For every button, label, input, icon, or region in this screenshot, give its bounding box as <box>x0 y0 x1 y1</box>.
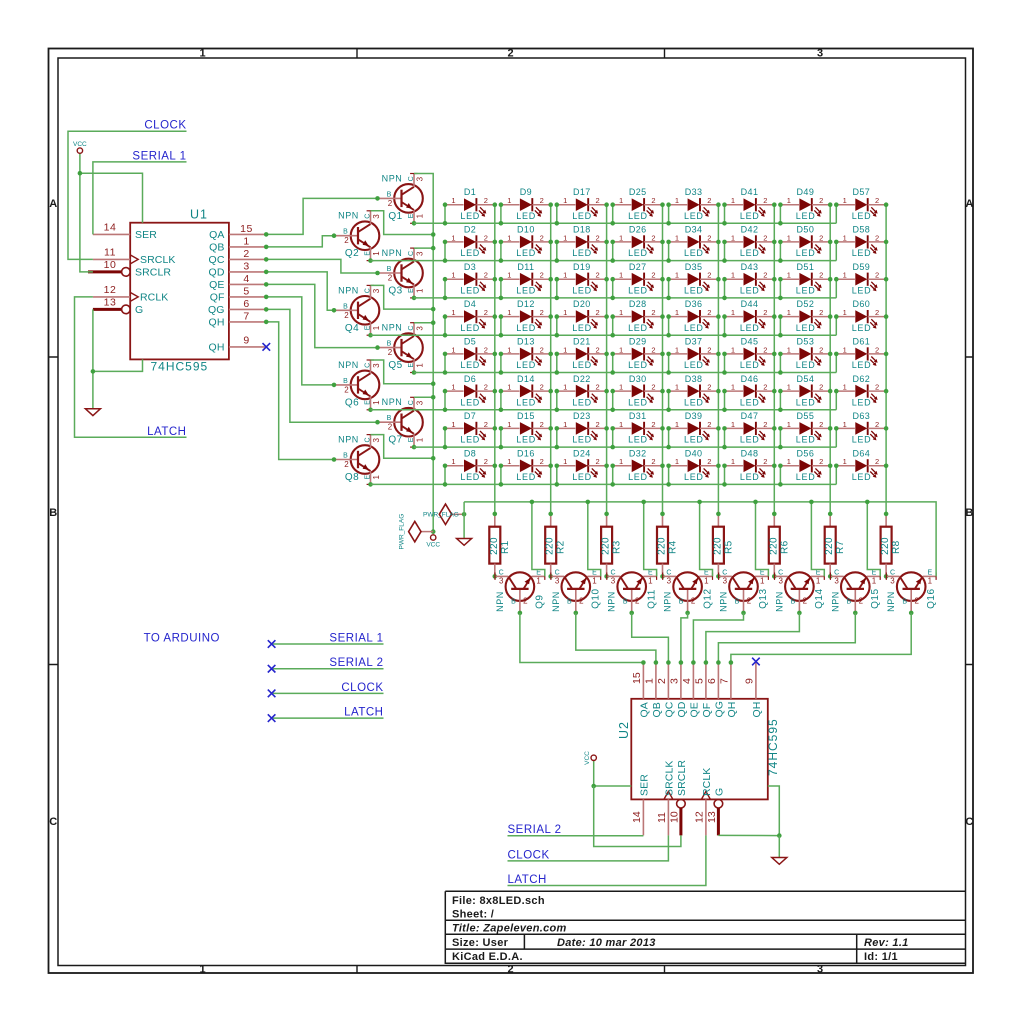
svg-text:QH: QH <box>751 702 763 718</box>
transistor Q13 NPN <box>719 569 769 613</box>
junction R5 bottom / Q13 collector <box>716 574 721 579</box>
svg-text:5: 5 <box>693 678 705 684</box>
transistor Q1 NPN <box>378 173 425 223</box>
svg-text:12: 12 <box>104 284 117 296</box>
junction U2 QF pin <box>704 660 709 665</box>
wire cathode column 3 <box>606 205 608 514</box>
LED D17 <box>557 196 607 221</box>
wire U1 QG to Q7 base <box>266 309 377 422</box>
svg-text:D4: D4 <box>464 299 476 309</box>
U2 pin 3 QD <box>680 662 682 699</box>
LED D29 <box>613 345 663 370</box>
junction Q8 base <box>332 457 337 462</box>
svg-text:7: 7 <box>718 678 730 684</box>
svg-text:Id: 1/1: Id: 1/1 <box>864 951 898 963</box>
svg-text:LATCH: LATCH <box>147 426 186 438</box>
junction R3 bottom / Q11 collector <box>604 574 609 579</box>
wire U1 QC to Q3 base <box>266 259 377 273</box>
LED D27 <box>613 271 663 296</box>
junctions row 6 <box>443 389 839 412</box>
svg-text:R7: R7 <box>835 540 846 554</box>
svg-text:D17: D17 <box>573 187 591 197</box>
resistor R4 220 <box>657 514 669 577</box>
wire stub SERIAL 1 <box>273 643 384 645</box>
junction Q16 base <box>909 611 914 616</box>
wire Q14 emitter to ground bus <box>811 502 824 577</box>
svg-text:SRCLR: SRCLR <box>676 760 688 796</box>
svg-text:Q5: Q5 <box>388 360 402 371</box>
svg-text:Q11: Q11 <box>646 589 657 609</box>
svg-text:Q9: Q9 <box>535 595 546 609</box>
junction Q6 base <box>332 383 337 388</box>
svg-text:Q15: Q15 <box>870 588 881 608</box>
wire cathode column 6 <box>773 205 775 514</box>
U2 pin 2 QC <box>667 662 669 699</box>
LED D19 <box>557 271 607 296</box>
U1 pin 3 QD <box>229 271 266 273</box>
junction U1 QC pin <box>264 257 269 262</box>
LED D16 <box>501 457 551 482</box>
svg-text:QD: QD <box>676 701 688 717</box>
svg-text:SRCLR: SRCLR <box>135 267 171 279</box>
LED D1 <box>445 196 495 221</box>
svg-text:D2: D2 <box>464 225 476 235</box>
LED D49 <box>780 196 830 221</box>
junction ground bus Q14 <box>809 500 814 505</box>
wire cathode column 2 <box>550 205 552 514</box>
svg-text:D19: D19 <box>573 262 591 272</box>
LED D40 <box>669 457 719 482</box>
svg-text:Q13: Q13 <box>758 588 769 608</box>
svg-text:Sheet: /: Sheet: / <box>452 909 494 921</box>
wire U1 G to ground <box>92 309 94 408</box>
svg-text:15: 15 <box>631 672 643 684</box>
svg-text:VCC: VCC <box>584 751 591 765</box>
U2 pin 14 SER <box>642 799 644 835</box>
svg-text:D10: D10 <box>517 225 535 235</box>
wire ground bus <box>464 502 936 577</box>
LED D8 <box>445 457 495 482</box>
no-connect X stub CLOCK <box>268 690 276 698</box>
U2 pin 15 QA <box>642 662 644 699</box>
no-connect X stub SERIAL 1 <box>268 640 276 648</box>
junction R1 bottom / Q9 collector <box>493 574 498 579</box>
wire cathode column 7 <box>829 205 831 514</box>
LED D61 <box>836 345 886 370</box>
wire row 1 anode bus <box>414 222 836 224</box>
no-connect X at U1 pin 9 <box>263 343 271 351</box>
power port VCC (U2) <box>593 761 595 787</box>
svg-text:Q4: Q4 <box>345 323 359 334</box>
svg-text:QB: QB <box>209 242 224 254</box>
junction U1 QG pin <box>264 307 269 312</box>
svg-text:D22: D22 <box>573 374 591 384</box>
svg-text:SRCLK: SRCLK <box>663 760 675 796</box>
power port VCC (left) <box>79 153 81 173</box>
LED D5 <box>445 345 495 370</box>
transistor Q2 NPN <box>334 211 381 261</box>
title block <box>445 891 965 963</box>
svg-text:D44: D44 <box>741 299 759 309</box>
junction VCC bus Q7 <box>431 395 436 400</box>
junctions row 7 <box>443 426 839 449</box>
resistor R3 220 <box>601 514 613 577</box>
wire U2 SRCLR to VCC <box>594 786 681 847</box>
wire cathode column 8 <box>885 205 887 514</box>
svg-text:D3: D3 <box>464 262 476 272</box>
svg-text:QF: QF <box>210 292 225 304</box>
svg-text:D64: D64 <box>852 448 870 458</box>
wire Q14 base to U2 QF <box>706 613 800 663</box>
svg-text:3: 3 <box>243 261 249 273</box>
svg-text:QE: QE <box>688 702 700 717</box>
svg-text:D24: D24 <box>573 448 591 458</box>
junction ground bus Q15 <box>865 500 870 505</box>
svg-text:QB: QB <box>651 702 663 717</box>
svg-text:D28: D28 <box>629 299 647 309</box>
wire Q9 base to U2 QA <box>520 613 644 663</box>
LED D54 <box>780 383 830 408</box>
ground symbol (matrix) <box>463 514 465 538</box>
U2 pin 1 QB <box>655 662 657 699</box>
svg-text:Q14: Q14 <box>814 588 825 608</box>
U1 pin 12 RCLK <box>93 296 130 298</box>
LED D26 <box>613 233 663 258</box>
junction R8 top <box>884 512 889 517</box>
wire SERIAL 2 to U2 SER <box>508 835 644 837</box>
junctions row 5 <box>443 352 839 375</box>
wire LATCH to U2 RCLK <box>508 835 706 885</box>
LED D11 <box>501 271 551 296</box>
wire Q7 collector to VCC bus <box>414 396 433 398</box>
U2 pin 12 RCLK <box>705 799 707 835</box>
wire Q3 collector to VCC bus <box>414 247 433 249</box>
svg-text:R3: R3 <box>612 540 623 554</box>
LED D56 <box>780 457 830 482</box>
svg-text:D46: D46 <box>741 374 759 384</box>
transistor Q14 NPN <box>774 569 824 613</box>
wire cathode column 1 <box>494 205 496 514</box>
junction Q8 emitter / row 8 <box>368 482 373 487</box>
LED D13 <box>501 345 551 370</box>
junction VCC bus Q2 <box>431 232 436 237</box>
svg-text:13: 13 <box>706 811 718 823</box>
junction U2 ground <box>777 833 782 838</box>
resistor R7 220 <box>824 514 836 577</box>
junctions row 4 <box>443 314 839 337</box>
wire row 3 anode bus <box>414 297 836 299</box>
resistor R2 220 <box>545 514 557 577</box>
svg-text:D5: D5 <box>464 337 476 347</box>
wire U1 QF to Q6 base <box>266 297 334 385</box>
wire U1 hidden GND pin <box>93 359 143 371</box>
svg-text:D43: D43 <box>741 262 759 272</box>
svg-text:A: A <box>965 198 973 210</box>
svg-text:SER: SER <box>135 229 157 241</box>
svg-text:D14: D14 <box>517 374 535 384</box>
wire CLOCK to U2 SRCLK <box>508 835 669 861</box>
LED D18 <box>557 233 607 258</box>
junction VCC node <box>431 529 436 534</box>
U2 pin 13 G <box>714 799 723 808</box>
svg-text:SERIAL 1: SERIAL 1 <box>132 150 186 162</box>
junction Q7 emitter / row 7 <box>412 445 417 450</box>
svg-text:12: 12 <box>693 811 705 823</box>
U1 pin 5 QF <box>229 296 266 298</box>
LED D64 <box>836 457 886 482</box>
svg-text:R1: R1 <box>500 540 511 554</box>
junction Q6 emitter / row 6 <box>368 408 373 413</box>
svg-text:D20: D20 <box>573 299 591 309</box>
svg-text:CLOCK: CLOCK <box>144 120 186 132</box>
svg-text:D45: D45 <box>741 337 759 347</box>
svg-text:2: 2 <box>508 963 514 975</box>
junction U2 QB pin <box>654 660 659 665</box>
wire cathode column 4 <box>662 205 664 514</box>
LED D6 <box>445 383 495 408</box>
junction Q5 base <box>375 345 380 350</box>
junction R4 top <box>660 512 665 517</box>
LED D34 <box>669 233 719 258</box>
junction ground bus Q13 <box>753 500 758 505</box>
junction R6 top <box>772 512 777 517</box>
junction U1 QA pin <box>264 232 269 237</box>
svg-text:Q7: Q7 <box>388 435 402 446</box>
wire Q1 collector to VCC bus <box>414 174 433 532</box>
U1 pin 14 SER <box>93 233 130 235</box>
LED D63 <box>836 420 886 445</box>
junction ground bus Q9 <box>530 500 535 505</box>
svg-text:3: 3 <box>817 963 823 975</box>
U1 pin 10 SRCLR (inverted) <box>88 270 122 273</box>
transistor Q6 NPN <box>334 360 381 410</box>
U1 pin 7 QH <box>229 321 266 323</box>
wire anode drops row 7 <box>445 428 836 447</box>
svg-text:LATCH: LATCH <box>508 874 547 886</box>
wire U1 QE to Q5 base <box>266 284 377 347</box>
LED D24 <box>557 457 607 482</box>
junction R5 top <box>716 512 721 517</box>
LED D14 <box>501 383 551 408</box>
svg-text:D42: D42 <box>741 225 759 235</box>
svg-text:QH: QH <box>209 342 225 354</box>
junction ground bus Q11 <box>641 500 646 505</box>
svg-text:B: B <box>965 507 973 519</box>
wire Q12 emitter to ground bus <box>700 502 713 577</box>
svg-text:QA: QA <box>209 229 224 241</box>
wire VCC to U1 SRCLR <box>80 173 93 272</box>
svg-text:D49: D49 <box>797 187 815 197</box>
svg-text:C: C <box>49 816 57 828</box>
svg-text:D62: D62 <box>852 374 870 384</box>
svg-text:SERIAL 2: SERIAL 2 <box>329 657 383 669</box>
LED D21 <box>557 345 607 370</box>
LED D15 <box>501 420 551 445</box>
junction VCC bus Q5 <box>431 320 436 325</box>
resistor R5 220 <box>712 514 724 577</box>
svg-text:D55: D55 <box>797 411 815 421</box>
svg-text:D31: D31 <box>629 411 647 421</box>
transistor Q7 NPN <box>378 397 425 447</box>
LED D12 <box>501 308 551 333</box>
junction U2 QA pin <box>641 660 646 665</box>
wire Q5 collector to VCC bus <box>414 322 433 324</box>
wire U1 QD to Q4 base <box>266 272 334 310</box>
resistor R8 220 <box>880 514 892 577</box>
svg-text:D58: D58 <box>852 225 870 235</box>
svg-text:6: 6 <box>243 298 249 310</box>
svg-text:Q1: Q1 <box>388 211 402 222</box>
svg-text:D8: D8 <box>464 448 476 458</box>
svg-text:Rev: 1.1: Rev: 1.1 <box>864 937 909 949</box>
junctions cathode column 3 <box>604 202 609 468</box>
LED D32 <box>613 457 663 482</box>
transistor Q3 NPN <box>378 248 425 298</box>
junctions cathode column 1 <box>493 202 498 468</box>
U2 pin 10 SRCLR <box>677 799 686 808</box>
svg-text:1: 1 <box>643 678 655 684</box>
svg-text:Q2: Q2 <box>345 248 359 259</box>
junctions cathode column 8 <box>884 202 889 468</box>
svg-text:2: 2 <box>243 248 249 260</box>
svg-text:74HC595: 74HC595 <box>766 718 780 776</box>
svg-text:D18: D18 <box>573 225 591 235</box>
wire Q2 collector to VCC bus <box>371 211 434 235</box>
U2 pin 5 QF <box>705 662 707 699</box>
svg-text:2: 2 <box>656 678 668 684</box>
wire anode drops row 4 <box>445 317 836 336</box>
wire U1 QH to Q8 base <box>266 322 334 460</box>
wire Q8 collector to VCC bus <box>371 435 434 459</box>
svg-text:D12: D12 <box>517 299 535 309</box>
svg-text:QF: QF <box>701 703 713 718</box>
svg-text:A: A <box>49 198 57 210</box>
svg-text:11: 11 <box>656 812 668 823</box>
U1 pin 2 QC <box>229 258 266 260</box>
resistor R1 220 <box>489 514 501 577</box>
wire Q13 emitter to ground bus <box>756 502 769 577</box>
svg-text:Q3: Q3 <box>388 286 402 297</box>
LED D53 <box>780 345 830 370</box>
svg-text:D13: D13 <box>517 337 535 347</box>
junctions row 3 <box>443 277 839 300</box>
svg-text:D7: D7 <box>464 411 476 421</box>
svg-text:7: 7 <box>243 311 249 323</box>
svg-text:10: 10 <box>668 811 680 823</box>
LED D37 <box>669 345 719 370</box>
wire row 4 anode bus <box>371 334 837 336</box>
LED D22 <box>557 383 607 408</box>
LED D44 <box>725 308 775 333</box>
svg-text:SRCLK: SRCLK <box>140 254 176 266</box>
svg-text:15: 15 <box>240 223 253 235</box>
svg-text:KiCad E.D.A.: KiCad E.D.A. <box>452 951 523 963</box>
LED D46 <box>725 383 775 408</box>
svg-text:D38: D38 <box>685 374 703 384</box>
wire LATCH to U1 RCLK <box>75 297 187 437</box>
LED D47 <box>725 420 775 445</box>
svg-text:RCLK: RCLK <box>140 292 168 304</box>
ground symbol below U2 <box>778 836 780 858</box>
U1 pin 1 QB <box>229 246 266 248</box>
U1 pin 15 QA <box>229 233 266 235</box>
junction Q12 base <box>685 611 690 616</box>
svg-text:QH: QH <box>209 317 225 329</box>
wire U2 G to ground <box>718 834 779 836</box>
LED D41 <box>725 196 775 221</box>
LED D59 <box>836 271 886 296</box>
svg-text:D56: D56 <box>797 448 815 458</box>
LED D55 <box>780 420 830 445</box>
svg-text:D35: D35 <box>685 262 703 272</box>
LED D3 <box>445 271 495 296</box>
LED D23 <box>557 420 607 445</box>
wire Q9 emitter to ground bus <box>532 502 545 577</box>
svg-text:D63: D63 <box>852 411 870 421</box>
svg-text:D16: D16 <box>517 448 535 458</box>
svg-text:D6: D6 <box>464 374 476 384</box>
svg-text:CLOCK: CLOCK <box>508 849 550 861</box>
resistor R6 220 <box>768 514 780 577</box>
U1 pin 4 QE <box>229 283 266 285</box>
transistor Q16 NPN <box>886 569 936 613</box>
junctions cathode column 6 <box>772 202 777 468</box>
wire row 7 anode bus <box>414 446 836 448</box>
transistor Q10 NPN <box>551 569 601 613</box>
transistor Q9 NPN <box>495 569 545 613</box>
wire SERIAL 1 to U1 SER <box>93 162 187 235</box>
LED D30 <box>613 383 663 408</box>
no-connect X stub SERIAL 2 <box>268 665 276 673</box>
svg-text:D48: D48 <box>741 448 759 458</box>
junction Q13 base <box>741 611 746 616</box>
svg-text:U1: U1 <box>190 208 208 222</box>
junctions row 1 <box>443 202 839 225</box>
junction VCC bus Q4 <box>431 307 436 312</box>
svg-text:D29: D29 <box>629 337 647 347</box>
junction R3 top <box>604 512 609 517</box>
junction Q14 base <box>797 611 802 616</box>
svg-text:D50: D50 <box>797 225 815 235</box>
svg-text:R5: R5 <box>723 540 734 554</box>
svg-text:D41: D41 <box>741 187 759 197</box>
svg-text:D1: D1 <box>464 187 476 197</box>
transistor Q15 NPN <box>830 569 880 613</box>
junction Q4 emitter / row 4 <box>368 333 373 338</box>
svg-text:Title: Zapeleven.com: Title: Zapeleven.com <box>452 922 567 934</box>
LED D33 <box>669 196 719 221</box>
junction R4 bottom / Q12 collector <box>660 574 665 579</box>
U1 pin 11 SRCLK <box>93 258 130 260</box>
wire VCC to U2 hidden VCC pin <box>594 785 632 787</box>
svg-text:Q10: Q10 <box>591 588 602 608</box>
wire VCC to U1 hidden VCC pin <box>80 173 143 223</box>
LED D20 <box>557 308 607 333</box>
svg-text:R8: R8 <box>891 540 902 554</box>
LED D9 <box>501 196 551 221</box>
svg-text:Size: User: Size: User <box>452 937 509 949</box>
svg-text:C: C <box>965 816 973 828</box>
svg-text:10: 10 <box>104 259 117 271</box>
svg-text:R6: R6 <box>779 540 790 554</box>
svg-text:RCLK: RCLK <box>701 768 713 796</box>
wire Q11 emitter to ground bus <box>644 502 657 577</box>
LED D51 <box>780 271 830 296</box>
svg-text:Date: 10 mar 2013: Date: 10 mar 2013 <box>557 937 656 949</box>
LED D62 <box>836 383 886 408</box>
junction R1 top <box>493 512 498 517</box>
no-connect X at U2 pin 9 <box>752 658 760 666</box>
